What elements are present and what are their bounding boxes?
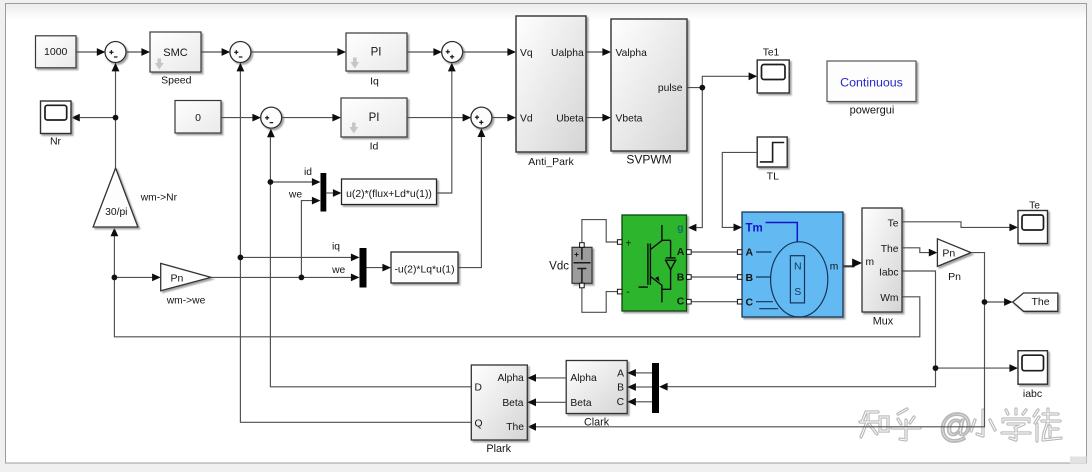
scope Te [1018, 211, 1048, 244]
Plark (Park) block [471, 365, 527, 440]
scrollbar corner [1070, 457, 1087, 464]
demux bar abc [652, 363, 659, 413]
wire Mux Iabc to scope iabc and demux [903, 271, 1011, 368]
svg-text:Iabc: Iabc [879, 267, 898, 278]
junction Nr [113, 115, 119, 121]
Clark block [566, 361, 627, 414]
svg-text:m: m [830, 262, 839, 273]
svg-text:id: id [304, 167, 312, 178]
motor port squares [737, 250, 742, 255]
gain Pn [937, 239, 971, 267]
watermark 知乎 @小学徒 [860, 407, 1061, 444]
svg-text:+: + [626, 239, 632, 250]
wire Mux The to gain Pn [903, 248, 930, 253]
Anti_Park block [516, 16, 586, 152]
wire demux to Clark A [636, 372, 652, 374]
wire Clark Alpha to Plark Alpha [536, 377, 566, 379]
svg-text:1000: 1000 [44, 46, 68, 58]
svg-text:@: @ [939, 407, 973, 444]
svg-text:iq: iq [332, 242, 340, 253]
gain Pn wm->we [161, 263, 211, 290]
svg-text:N: N [794, 260, 802, 272]
svg-text:pulse: pulse [658, 83, 683, 94]
sum junction S3 [442, 42, 463, 63]
wire wm->we output to mux2 we input [211, 276, 352, 278]
wire 30/pi to sum1 and scope Nr [115, 71, 117, 168]
wire PI Id to sum4 [407, 117, 464, 119]
svg-text:Ualpha: Ualpha [551, 48, 584, 59]
wire Mux Wm feedback to gains [114, 236, 919, 337]
svg-text:Speed: Speed [161, 74, 192, 86]
wire sum3 to Anti_Park Vq [462, 51, 509, 53]
mux1 bar (id,we) [321, 173, 327, 212]
svg-text:Pn: Pn [948, 271, 961, 283]
wire TL to motor Tm [722, 152, 757, 227]
wire sum S2b to PI Id [281, 117, 334, 119]
Fcn block u(2)*(flux+Ld*u(1)) [342, 179, 437, 205]
svg-text:we: we [331, 265, 345, 276]
wire 1000 to sum1 [76, 51, 98, 53]
scope Te1 [757, 60, 789, 93]
svg-text:Te: Te [888, 218, 899, 229]
wire mux2 to Fcn2 [367, 267, 384, 269]
inverter bridge block (green) [622, 215, 687, 311]
svg-text:g: g [677, 222, 683, 234]
PMSM motor block (blue) [742, 212, 843, 317]
port Vdc top [580, 243, 585, 248]
svg-text:Continuous: Continuous [840, 75, 903, 89]
svg-text:Te: Te [1029, 201, 1040, 212]
goto tag The [1013, 293, 1058, 311]
svg-text:Valpha: Valpha [616, 48, 648, 59]
svg-text:A: A [617, 369, 624, 380]
junction pulse [699, 85, 705, 91]
svg-text:B: B [746, 272, 754, 284]
svg-text:SVPWM: SVPWM [626, 153, 671, 167]
wire demux to Clark C [636, 401, 652, 403]
wire Mux Te to scope Te [903, 222, 1011, 228]
junction wm [112, 275, 118, 281]
svg-text:B: B [617, 383, 624, 394]
wire Vdc plus to inverter [582, 220, 618, 243]
svg-text:Vq: Vq [520, 48, 533, 59]
svg-text:The: The [1031, 296, 1049, 308]
svg-text:Clark: Clark [584, 417, 610, 429]
svg-text:A: A [746, 247, 754, 259]
powergui block Continuous [827, 61, 916, 102]
svg-text:C: C [617, 397, 625, 408]
SMC speed controller block [150, 32, 201, 72]
svg-text:Vd: Vd [520, 113, 533, 124]
scope iabc [1018, 351, 1048, 385]
gain 30/pi [93, 168, 138, 227]
wire iq branch to mux2 [240, 256, 351, 258]
wire Fcn2 to sum4 [458, 137, 481, 268]
svg-text:Pn: Pn [942, 247, 955, 259]
svg-text:Beta: Beta [502, 398, 523, 409]
inverter port squares [617, 240, 622, 245]
svg-text:Iq: Iq [370, 76, 379, 88]
svg-text:TL: TL [767, 171, 779, 183]
wire sum4 to Anti_Park Vd [492, 117, 509, 119]
svg-text:Nr: Nr [50, 136, 62, 148]
svg-text:D: D [475, 382, 482, 393]
junction iq [238, 255, 244, 261]
svg-text:PI: PI [369, 112, 380, 124]
step block TL [757, 137, 787, 167]
svg-text:Q: Q [475, 418, 483, 429]
svg-text:Wm: Wm [880, 293, 898, 304]
junction iabc [933, 365, 939, 371]
wire demux to Clark B [636, 386, 652, 388]
svg-text:m: m [866, 257, 875, 268]
svg-text:A: A [677, 246, 685, 258]
wire Pn output to Goto The and Plark The [536, 253, 985, 427]
sum junction S2b [261, 107, 282, 128]
wire Plark D to sum S2b (id feedback) [270, 137, 471, 387]
svg-text:Alpha: Alpha [570, 373, 597, 384]
svg-text:Beta: Beta [570, 398, 591, 409]
svg-text:The: The [881, 244, 899, 255]
svg-text:PI: PI [371, 46, 382, 58]
sum junction S2 [230, 42, 251, 63]
wire we branch up to mux1 [301, 201, 312, 278]
svg-text:powergui: powergui [850, 104, 895, 116]
wire sum1 to SMC [126, 51, 143, 53]
mux2 bar (iq,we) [360, 248, 367, 288]
svg-text:Plark: Plark [486, 443, 511, 455]
DC source Vdc [572, 247, 592, 283]
junction The [982, 299, 988, 305]
svg-text:Ubeta: Ubeta [556, 113, 584, 124]
svg-text:Id: Id [370, 140, 379, 152]
svg-text:Vbeta: Vbeta [616, 113, 643, 124]
svg-text:C: C [746, 296, 754, 308]
svg-text:0: 0 [195, 112, 201, 124]
sum junction S4 [471, 107, 492, 128]
svg-text:Pn: Pn [170, 273, 183, 285]
svg-text:Alpha: Alpha [497, 373, 524, 384]
wire PI Iq to sum3 [407, 51, 435, 53]
svg-text:Vdc: Vdc [549, 261, 569, 273]
Mux measurement block [862, 208, 902, 312]
wire mux1 to Fcn1 [326, 192, 334, 194]
PI controller Id [341, 98, 407, 137]
Fcn block -u(2)*Lq*u(1) [391, 252, 458, 283]
wire Vdc minus to inverter [582, 288, 618, 313]
motor icon [756, 242, 828, 317]
svg-text:Mux: Mux [873, 316, 894, 328]
svg-text:30/pi: 30/pi [105, 207, 127, 218]
scope Nr [41, 101, 72, 134]
wire sum2 to PI Iq [251, 51, 339, 53]
wire Fcn1 to sum3 [437, 71, 452, 193]
port Vdc bottom [580, 283, 585, 288]
svg-text:wm->Nr: wm->Nr [140, 193, 178, 204]
PI controller Iq [346, 33, 407, 71]
svg-text:we: we [288, 189, 302, 200]
svg-text:-u(2)*Lq*u(1): -u(2)*Lq*u(1) [394, 264, 454, 275]
wire 0 to sum S2b [221, 117, 254, 119]
svg-text:C: C [677, 296, 685, 308]
SVPWM block [611, 19, 687, 151]
svg-text:wm->we: wm->we [166, 296, 206, 307]
sum junction S1 [105, 42, 126, 63]
wire Clark Beta to Plark Beta [536, 401, 566, 403]
wire Plark Q to sum S2 (iq feedback) [240, 71, 471, 422]
svg-text:SMC: SMC [163, 47, 188, 59]
wire pulse to Te1 scope and gate g [687, 76, 749, 87]
svg-text:Tm: Tm [746, 223, 763, 235]
wire Ubeta to Vbeta [586, 117, 604, 119]
svg-text:u(2)*(flux+Ld*u(1)): u(2)*(flux+Ld*u(1)) [346, 189, 432, 200]
wire SMC to sum2 [201, 51, 223, 53]
svg-text:B: B [677, 271, 685, 283]
wire Ualpha to Valpha [586, 51, 604, 53]
svg-text:The: The [506, 422, 524, 433]
wire phase C [691, 301, 737, 303]
svg-text:S: S [794, 286, 801, 298]
svg-text:Anti_Park: Anti_Park [528, 156, 574, 168]
svg-text:-: - [626, 287, 629, 298]
wire motor m to Mux [843, 263, 853, 266]
constant block 0 [175, 101, 221, 134]
svg-text:iabc: iabc [1023, 388, 1042, 400]
wire id branch to mux1 [270, 181, 312, 183]
junction we [299, 275, 305, 281]
constant block 1000 [36, 36, 77, 68]
wire phase A inverter to motor [691, 251, 737, 253]
wire phase B [691, 276, 737, 278]
junction id [268, 179, 274, 185]
svg-text:Te1: Te1 [763, 48, 780, 59]
